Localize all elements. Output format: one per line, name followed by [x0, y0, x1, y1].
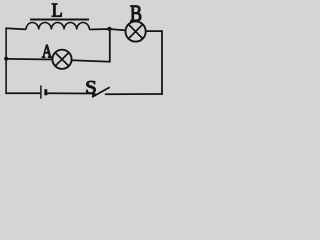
- label L: [52, 4, 62, 17]
- wire bottom-right: corner to switch: [105, 93, 163, 95]
- lamp A circle: [52, 50, 71, 69]
- label B: [130, 6, 141, 21]
- lamp B circle: [126, 21, 146, 41]
- wire: lamp A to vertical riser: [72, 60, 111, 62]
- battery BT1 long thin plate: [40, 86, 42, 99]
- inductor core bar: [30, 19, 89, 21]
- label S: [86, 81, 95, 93]
- wire: coil to lamp B: [89, 29, 125, 30]
- lamp A cross: [55, 53, 69, 66]
- wire: switch to battery: [47, 92, 93, 94]
- node junction dot at left edge: [4, 57, 8, 61]
- switch S blade: [92, 87, 110, 97]
- label A: [42, 45, 52, 58]
- switch pivot dot: [92, 93, 96, 97]
- wire: battery to bottom-left corner: [5, 92, 40, 94]
- node junction dot on top wire: [107, 27, 111, 31]
- inductor L1 coil (5 humps): [26, 23, 89, 30]
- wire: branch A from left edge to lamp A: [6, 58, 53, 61]
- wire top-left: from top-left corner to inductor: [6, 28, 26, 29]
- lamp B cross: [129, 24, 143, 38]
- paper background: [0, 0, 169, 110]
- wire right edge: [161, 30, 163, 95]
- wire left edge: [5, 28, 7, 95]
- wire: lamp B to top-right corner: [146, 30, 162, 32]
- wire vertical riser to node: [109, 29, 111, 62]
- battery BT1 short thick plate: [44, 89, 47, 95]
